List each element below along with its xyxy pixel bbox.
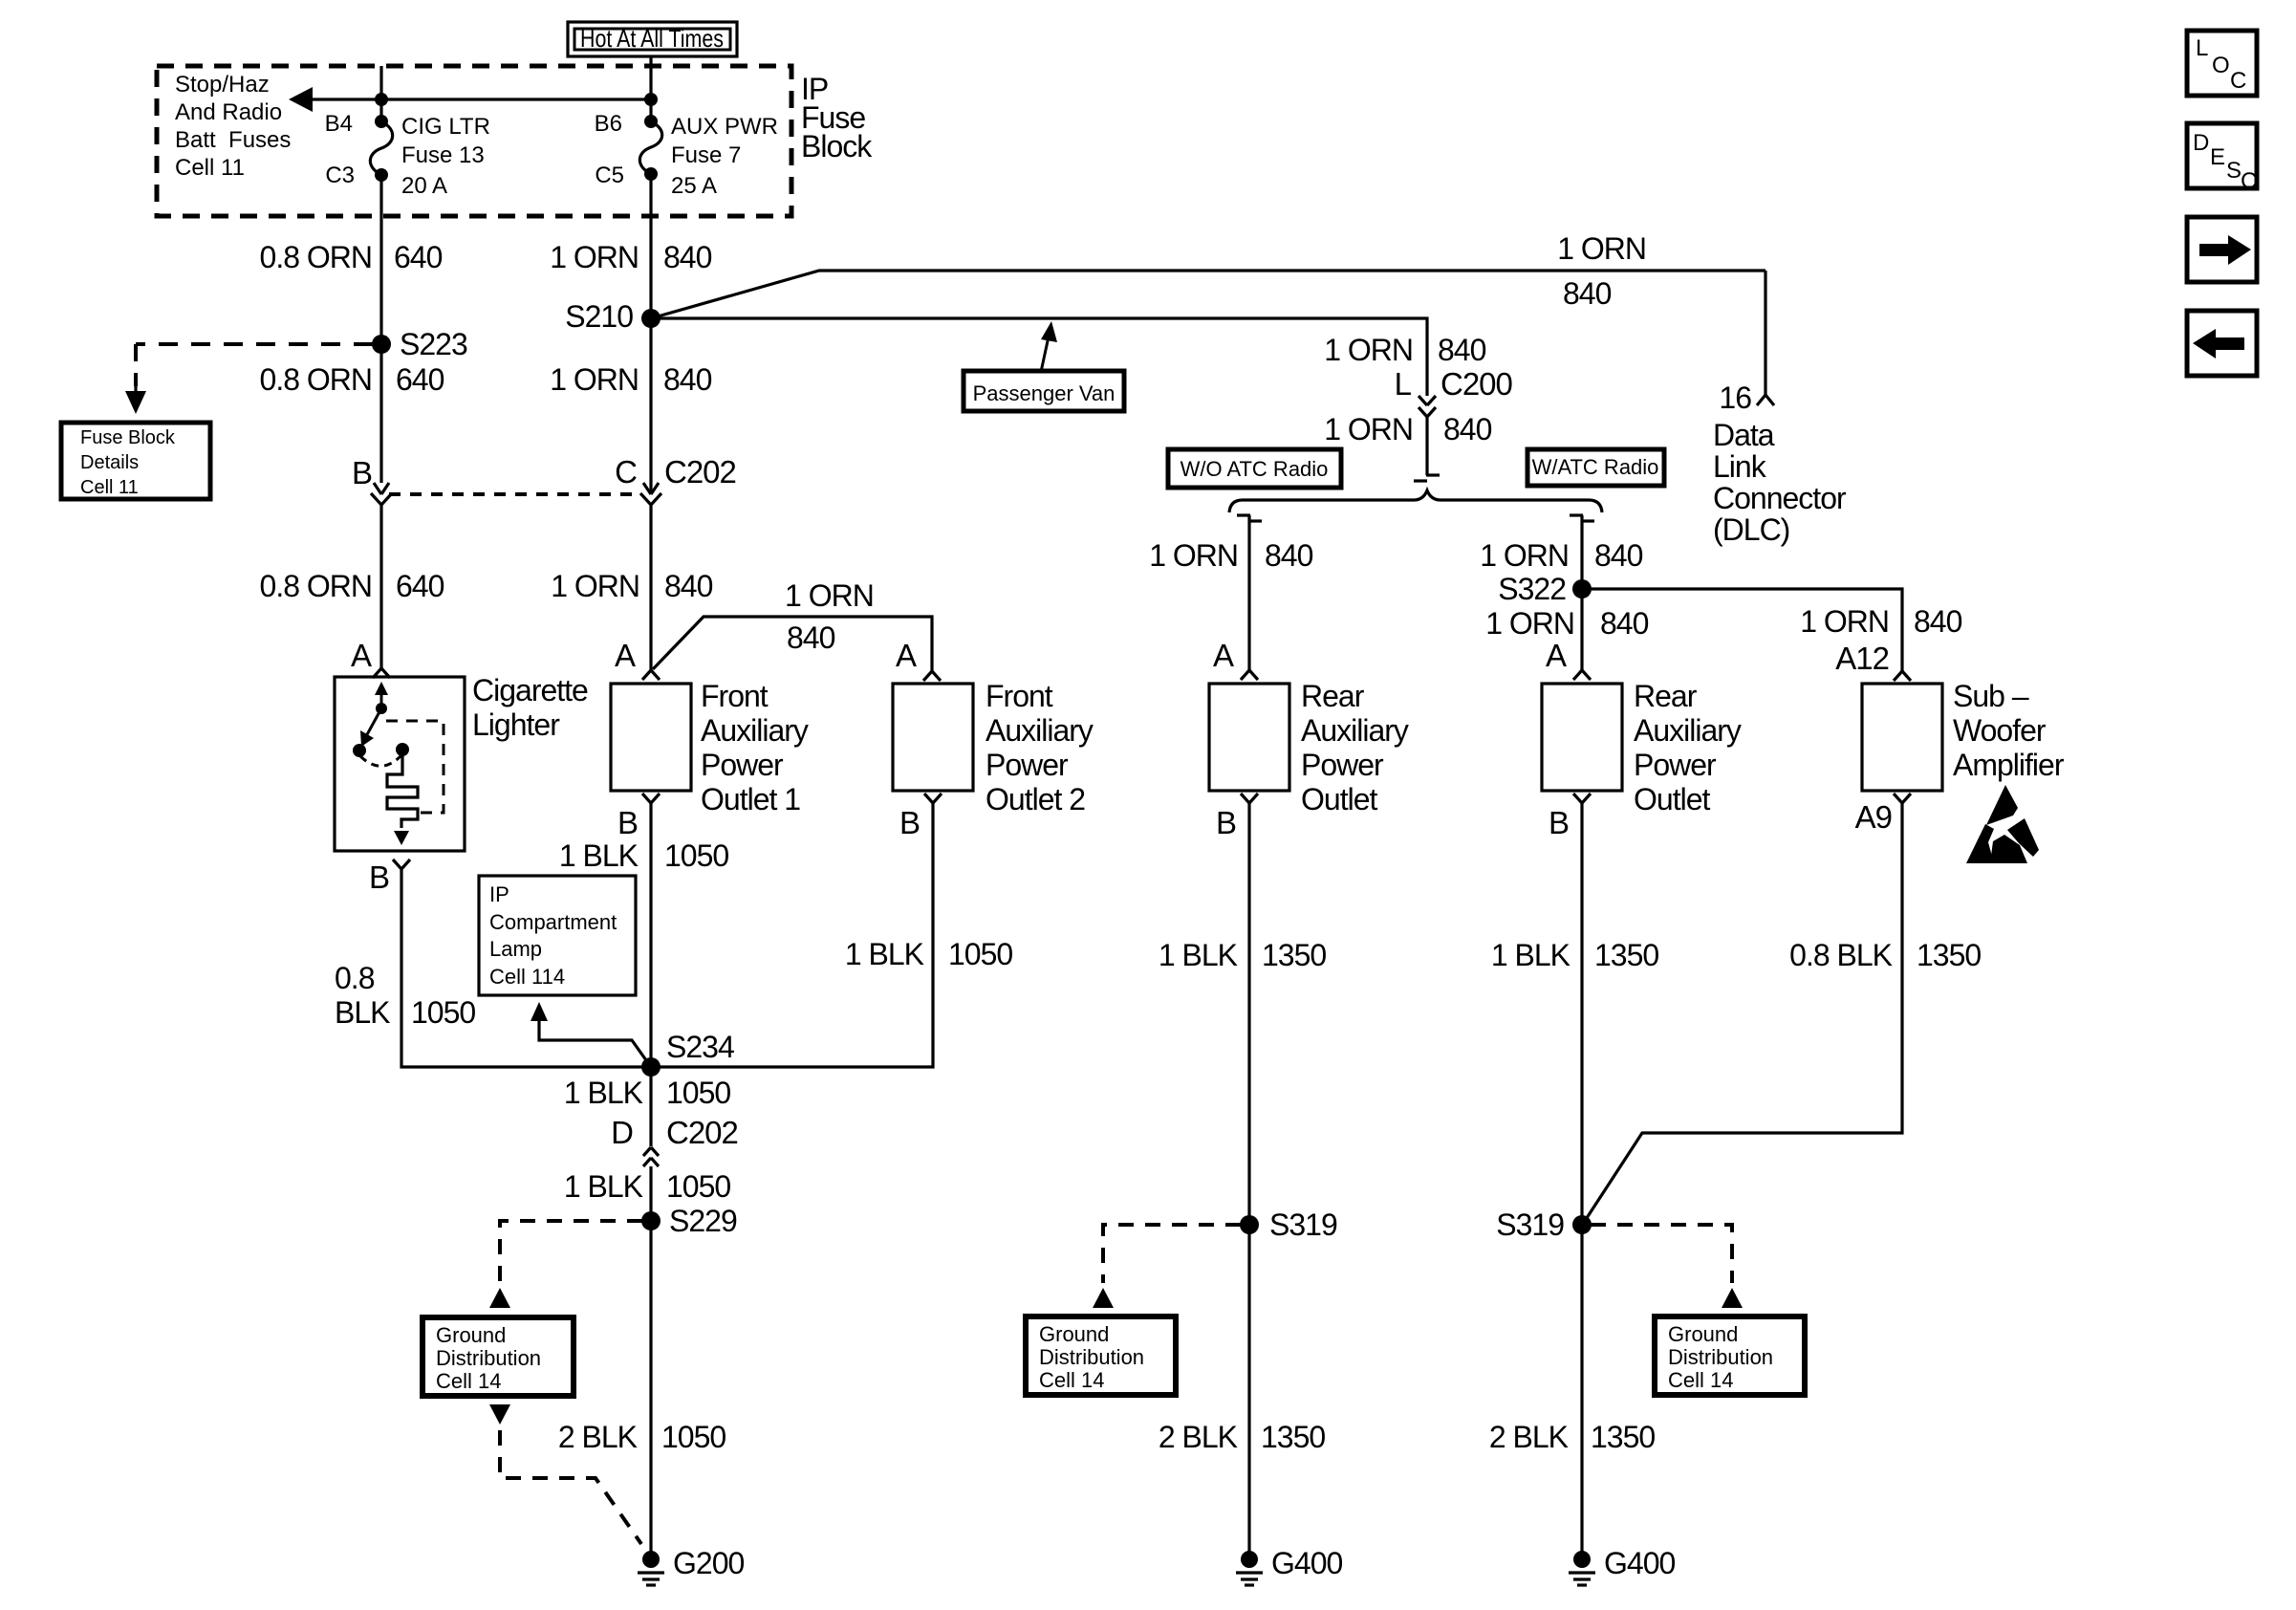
pin A9 of sub-woofer amplifier: [1855, 794, 1911, 835]
svg-text:2 BLK: 2 BLK: [558, 1420, 638, 1454]
svg-text:Front: Front: [986, 679, 1053, 713]
svg-text:B: B: [899, 805, 920, 840]
svg-text:840: 840: [1443, 412, 1492, 446]
label 0.8 ORN 640 (below S223): [260, 362, 444, 397]
svg-text:Fuse Block: Fuse Block: [80, 427, 176, 448]
cigarette lighter internals: dashed element outline: [386, 721, 444, 813]
svg-text:And Radio: And Radio: [175, 99, 282, 125]
svg-text:Cell 11: Cell 11: [80, 477, 139, 498]
wire: S210 run to C200: [651, 318, 1427, 396]
svg-text:1 ORN: 1 ORN: [1324, 333, 1413, 367]
legend box left-arrow: [2187, 311, 2257, 376]
wire: S322 branch to sub-woofer pin A12: [1582, 589, 1902, 671]
svg-text:L: L: [1395, 366, 1412, 402]
svg-text:S: S: [2226, 158, 2242, 184]
svg-text:840: 840: [787, 620, 835, 655]
svg-text:Data: Data: [1713, 418, 1775, 452]
wire: 0.8 BLK 1350 from A9 to S319 (right): [1585, 803, 1902, 1221]
svg-text:1350: 1350: [1591, 1420, 1655, 1454]
wire: 1 BLK 1350 rear outlet to G400 (left): [1247, 803, 1250, 1559]
cigarette lighter internals: dashed arc between contacts: [360, 755, 401, 766]
reference box: IP Compartment Lamp Cell 114: [479, 876, 636, 995]
wire: 1 BLK 1050 outlet 1 to S234: [649, 803, 652, 1146]
splice S210: [565, 299, 661, 334]
svg-text:W/O ATC Radio: W/O ATC Radio: [1180, 457, 1329, 481]
svg-text:A: A: [615, 638, 636, 673]
svg-text:S322: S322: [1498, 572, 1566, 606]
svg-text:Sub –: Sub –: [1953, 679, 2029, 713]
dashed reference from Ground Distribution box to G200 wire: [489, 1404, 641, 1544]
svg-text:1050: 1050: [411, 995, 475, 1030]
svg-text:O: O: [2212, 53, 2230, 78]
svg-text:840: 840: [1914, 604, 1962, 639]
svg-text:Auxiliary: Auxiliary: [701, 713, 809, 748]
svg-text:1 ORN: 1 ORN: [1480, 538, 1569, 573]
component box: Front Auxiliary Power Outlet 2: [893, 679, 1094, 816]
svg-text:Power: Power: [1634, 748, 1717, 782]
component box: Rear Auxiliary Power Outlet (W/ATC): [1542, 679, 1742, 816]
label 1 ORN 840 on branch: [785, 578, 874, 655]
legend box DESC: [2187, 123, 2257, 194]
svg-text:Cell 14: Cell 14: [1039, 1368, 1104, 1392]
hook terminal at C200 wire end: [1414, 475, 1440, 481]
svg-text:20 A: 20 A: [401, 173, 447, 199]
wire: S210 diagonal branch to upper ORN run: [651, 271, 1765, 318]
svg-text:Distribution: Distribution: [1039, 1345, 1144, 1369]
svg-text:Compartment: Compartment: [489, 910, 617, 934]
cigarette lighter internals: element contact dot: [396, 743, 409, 756]
label 1 ORN 840 below C200: [1324, 412, 1491, 446]
legend box right-arrow: [2187, 217, 2257, 282]
svg-text:A: A: [351, 638, 372, 673]
svg-text:Batt Fuses: Batt Fuses: [175, 127, 291, 153]
wire: right vertical from Hot box to fuse B6: [649, 56, 652, 121]
svg-text:E: E: [2210, 144, 2225, 170]
label 0.8 BLK 1350: [1789, 938, 1981, 972]
svg-text:Ground: Ground: [436, 1323, 506, 1347]
label 1 BLK 1050 above S229: [564, 1169, 731, 1204]
svg-text:Lamp: Lamp: [489, 937, 542, 961]
svg-text:C202: C202: [664, 454, 736, 490]
svg-text:Cigarette: Cigarette: [472, 673, 588, 707]
fuse AUX PWR Fuse 7 25 A: [595, 111, 778, 199]
label 1 BLK 1350 (left): [1159, 938, 1327, 972]
connector break D (C202): [611, 1115, 738, 1166]
component box: Rear Auxiliary Power Outlet (W/O ATC): [1209, 679, 1409, 816]
dashed reference from S319 right to Ground Distribution (right): [1591, 1225, 1743, 1308]
svg-text:A: A: [1546, 638, 1567, 673]
reference box: Ground Distribution Cell 14 (right): [1655, 1316, 1805, 1395]
node junction at left wire / arrow: [375, 93, 388, 106]
svg-text:C200: C200: [1440, 366, 1513, 402]
svg-text:Fuse 13: Fuse 13: [401, 142, 485, 168]
component box: Front Auxiliary Power Outlet 1: [611, 679, 809, 816]
label 1 ORN 840 above S322: [1480, 538, 1642, 573]
svg-text:1 ORN: 1 ORN: [550, 362, 639, 397]
arrow from S234 to IP Compartment Lamp box: [531, 1002, 651, 1067]
label: Data Link Connector (DLC): [1713, 418, 1847, 547]
harness split brace: [1229, 490, 1602, 512]
svg-text:G400: G400: [1604, 1546, 1675, 1580]
svg-text:Link: Link: [1713, 449, 1767, 484]
svg-text:840: 840: [1594, 538, 1643, 573]
ESD sensitivity symbol: [1966, 785, 2039, 863]
svg-text:840: 840: [1438, 333, 1486, 367]
svg-text:B: B: [352, 455, 372, 490]
svg-text:1050: 1050: [661, 1420, 726, 1454]
svg-text:1 BLK: 1 BLK: [1491, 938, 1570, 972]
svg-text:Outlet 1: Outlet 1: [701, 782, 800, 816]
label 1 ORN 840 on upper run: [1557, 231, 1646, 311]
connector break C (C202) on center wire: [615, 454, 736, 505]
hook terminal atop rear aux wire (W/ATC): [1570, 515, 1594, 521]
svg-text:D: D: [611, 1115, 633, 1150]
component box: Sub-Woofer Amplifier: [1862, 679, 2065, 791]
pin A of rear outlet (W/ATC): [1546, 638, 1591, 680]
label 1 ORN 840 (rear W/O ATC): [1149, 538, 1312, 573]
svg-text:S319: S319: [1269, 1207, 1337, 1242]
label 2 BLK 1350 (left): [1159, 1420, 1326, 1454]
svg-text:W/ATC Radio: W/ATC Radio: [1532, 455, 1659, 479]
pin A of cigarette lighter: [351, 638, 390, 678]
wire: 1 ORN 840 to rear outlet pin A (W/O ATC): [1247, 515, 1250, 671]
reference box: Fuse Block Details Cell 11: [61, 423, 210, 499]
wire: 1 BLK 1350 rear outlet (W/ATC) to G400 (right): [1580, 803, 1583, 1559]
wire: 1 ORN 840 from S210 to C break: [649, 318, 652, 494]
pin B of rear outlet (W/ATC): [1549, 794, 1591, 840]
svg-text:840: 840: [663, 362, 712, 397]
svg-text:1350: 1350: [1262, 938, 1326, 972]
svg-text:C: C: [2230, 68, 2246, 94]
svg-text:Details: Details: [80, 452, 139, 473]
label 1 ORN 840 (sub-woofer feed): [1800, 604, 1961, 639]
svg-text:Hot At All Times: Hot At All Times: [580, 24, 724, 53]
wire: branch from outlet1 pin A to outlet 2: [653, 617, 932, 671]
node junction at right wire / arrow: [644, 93, 658, 106]
svg-text:840: 840: [1563, 276, 1612, 311]
dashed connector line C202 between B and C: [389, 492, 639, 496]
svg-text:B: B: [1549, 805, 1569, 840]
pin A of outlet 1: [615, 638, 660, 680]
label 1 BLK 1050 below S234: [564, 1076, 731, 1110]
fuse CIG LTR Fuse 13 20 A: [325, 111, 490, 199]
pin A12 of sub-woofer amplifier: [1835, 641, 1911, 681]
svg-text:AUX PWR: AUX PWR: [671, 114, 778, 140]
svg-text:Amplifier: Amplifier: [1953, 748, 2065, 782]
svg-text:640: 640: [396, 569, 444, 603]
pin B of rear outlet (W/O ATC): [1216, 794, 1258, 840]
svg-text:1 BLK: 1 BLK: [559, 838, 639, 873]
svg-text:1 ORN: 1 ORN: [785, 578, 874, 613]
svg-text:25 A: 25 A: [671, 173, 717, 199]
svg-text:C: C: [615, 454, 637, 490]
dashed reference from S319 to Ground Distribution (middle): [1093, 1225, 1241, 1308]
dashed reference from S223 to Fuse Block Details: [125, 344, 373, 414]
cigarette lighter internals: heating element resistor: [387, 750, 418, 828]
svg-text:B: B: [369, 859, 389, 895]
wire below C200 to harness hook: [1425, 417, 1428, 475]
svg-text:CIG LTR: CIG LTR: [401, 114, 490, 140]
ground G400 (left): [1236, 1546, 1342, 1585]
svg-text:1 ORN: 1 ORN: [550, 240, 639, 274]
svg-text:Distribution: Distribution: [1668, 1345, 1773, 1369]
svg-text:1350: 1350: [1261, 1420, 1325, 1454]
svg-text:S319: S319: [1496, 1207, 1564, 1242]
svg-text:Auxiliary: Auxiliary: [1301, 713, 1409, 748]
svg-text:1 ORN: 1 ORN: [1324, 412, 1413, 446]
svg-text:1350: 1350: [1594, 938, 1658, 972]
svg-text:Woofer: Woofer: [1953, 713, 2047, 748]
svg-text:C202: C202: [666, 1115, 738, 1150]
svg-text:1 BLK: 1 BLK: [564, 1169, 643, 1204]
svg-text:BLK: BLK: [335, 995, 390, 1030]
dashed reference from S229 to Ground Distribution: [489, 1221, 642, 1308]
cigarette lighter internals: switch contact arrow up: [375, 682, 388, 714]
ground G200: [638, 1546, 744, 1585]
svg-text:640: 640: [396, 362, 444, 397]
svg-text:Connector: Connector: [1713, 481, 1847, 515]
svg-text:Lighter: Lighter: [472, 707, 560, 742]
svg-text:1050: 1050: [948, 937, 1012, 971]
pin A of rear outlet (W/O ATC): [1213, 638, 1258, 680]
svg-text:1 ORN: 1 ORN: [1800, 604, 1889, 639]
svg-text:Cell 114: Cell 114: [489, 965, 565, 989]
svg-text:Rear: Rear: [1634, 679, 1698, 713]
label 1 ORN 840 (center lower): [551, 569, 712, 603]
svg-text:L: L: [2196, 35, 2208, 61]
svg-text:840: 840: [664, 569, 713, 603]
svg-text:A: A: [1213, 638, 1234, 673]
svg-text:C3: C3: [325, 163, 355, 188]
cigarette lighter: [335, 673, 588, 851]
pin 16 of DLC: [1719, 381, 1774, 415]
svg-text:S210: S210: [565, 299, 633, 334]
connector C200 pin L: [1395, 366, 1513, 417]
svg-text:0.8 ORN: 0.8 ORN: [260, 362, 372, 397]
svg-text:840: 840: [1600, 606, 1649, 641]
wire: 1 ORN 840 from S322 to rear outlet pin A (W/ATC): [1580, 589, 1583, 671]
svg-text:Power: Power: [1301, 748, 1384, 782]
svg-text:Ground: Ground: [1039, 1322, 1109, 1346]
svg-text:1350: 1350: [1917, 938, 1981, 972]
wire: 0.8 ORN 640 from B break to cigarette lighter pin A: [379, 505, 382, 669]
svg-text:Power: Power: [701, 748, 784, 782]
option box: W/O ATC Radio: [1168, 449, 1341, 488]
svg-text:C: C: [2241, 168, 2257, 194]
splice S234: [641, 1030, 734, 1077]
wire: feed to Stop/Haz fuses with left arrow: [289, 87, 651, 112]
svg-text:Auxiliary: Auxiliary: [986, 713, 1094, 748]
svg-text:Block: Block: [801, 129, 873, 163]
svg-text:Rear: Rear: [1301, 679, 1365, 713]
wire: 0.8 BLK 1050 from cigarette lighter to S234 run: [401, 869, 642, 1067]
svg-text:G200: G200: [673, 1546, 744, 1580]
svg-text:0.8 ORN: 0.8 ORN: [260, 240, 372, 274]
svg-text:1 ORN: 1 ORN: [551, 569, 639, 603]
svg-text:1 BLK: 1 BLK: [845, 937, 924, 971]
legend box LOC: [2187, 31, 2257, 96]
label 1 BLK 1350 (right): [1491, 938, 1659, 972]
svg-text:16: 16: [1719, 381, 1751, 415]
splice S319 (right): [1496, 1207, 1592, 1242]
svg-text:Power: Power: [986, 748, 1069, 782]
wire: 0.8 ORN 640 from C3 to S223: [379, 175, 382, 483]
IP Fuse Block dashed boundary: [157, 66, 791, 216]
wire: upper run drop to DLC pin 16: [1764, 271, 1766, 395]
label 2 BLK 1350 (right): [1489, 1420, 1656, 1454]
wire: 1 BLK 1050 from D break to S229: [649, 1166, 652, 1559]
wire: 1 ORN 840 to S322: [1580, 515, 1583, 589]
svg-text:A9: A9: [1855, 799, 1892, 835]
label 1 BLK 1050 (outlet 2): [845, 937, 1013, 971]
svg-text:1050: 1050: [664, 838, 728, 873]
svg-text:S223: S223: [400, 327, 467, 361]
svg-text:2 BLK: 2 BLK: [1489, 1420, 1569, 1454]
wire: 1 BLK 1050 outlet 2 down to S234 run: [651, 803, 933, 1067]
label box: Hot At All Times: [568, 22, 737, 56]
option box: W/ATC Radio: [1527, 449, 1664, 486]
svg-text:Stop/Haz: Stop/Haz: [175, 72, 270, 98]
label 0.8 ORN 640 (lower): [260, 569, 444, 603]
splice S322: [1498, 572, 1592, 606]
svg-text:0.8: 0.8: [335, 961, 375, 995]
callout: Passenger Van: [964, 321, 1124, 411]
svg-text:C5: C5: [595, 163, 624, 188]
reference box: Ground Distribution Cell 14 (left): [422, 1317, 574, 1396]
svg-text:Cell 14: Cell 14: [1668, 1368, 1733, 1392]
svg-text:G400: G400: [1271, 1546, 1342, 1580]
svg-text:B: B: [617, 805, 638, 840]
label 1 ORN 840 (below S210): [550, 362, 711, 397]
svg-text:Ground: Ground: [1668, 1322, 1738, 1346]
svg-text:840: 840: [1265, 538, 1313, 573]
hook terminal atop rear aux wire (W/O ATC): [1237, 515, 1262, 521]
label 1 ORN 840 below S322: [1485, 606, 1648, 641]
svg-text:Outlet 2: Outlet 2: [986, 782, 1085, 816]
svg-text:Outlet: Outlet: [1634, 782, 1710, 816]
svg-text:A: A: [896, 638, 917, 673]
splice S319 (left): [1240, 1207, 1337, 1242]
svg-text:1 BLK: 1 BLK: [564, 1076, 643, 1110]
svg-text:840: 840: [663, 240, 712, 274]
svg-text:1050: 1050: [666, 1169, 730, 1204]
wire label 1 ORN 840 above C200: [1324, 333, 1485, 367]
ground G400 (right): [1569, 1546, 1675, 1585]
cigarette lighter internals: arrow down to pin B: [394, 831, 409, 845]
reference box: Ground Distribution Cell 14 (middle): [1026, 1316, 1176, 1395]
svg-text:D: D: [2193, 130, 2209, 156]
connector break B (C202) on left wire: [352, 455, 392, 505]
wire: left vertical from box top to fuse B4: [379, 66, 382, 121]
svg-text:Auxiliary: Auxiliary: [1634, 713, 1742, 748]
svg-text:Cell 14: Cell 14: [436, 1369, 501, 1393]
svg-text:S229: S229: [669, 1204, 737, 1238]
label 1 ORN 840 (upper center): [550, 240, 711, 274]
wire: 1 ORN 840 from C5 down to S210: [649, 174, 652, 318]
svg-text:0.8 BLK: 0.8 BLK: [1789, 938, 1893, 972]
splice S223: [372, 327, 467, 361]
pin B of outlet 1: [617, 794, 660, 840]
svg-text:Outlet: Outlet: [1301, 782, 1377, 816]
pin A of outlet 2: [896, 638, 941, 681]
pin B of outlet 2: [899, 794, 942, 840]
label: IP Fuse Block: [801, 72, 873, 163]
svg-text:A12: A12: [1835, 641, 1889, 676]
svg-text:0.8 ORN: 0.8 ORN: [260, 569, 372, 603]
svg-text:640: 640: [394, 240, 443, 274]
note: Stop/Haz And Radio Batt Fuses Cell 11: [175, 72, 291, 181]
label 1 BLK 1050: [559, 838, 729, 873]
cigarette lighter internals: movable contact arm: [353, 708, 381, 757]
svg-text:B6: B6: [595, 111, 622, 137]
svg-text:1 ORN: 1 ORN: [1485, 606, 1574, 641]
svg-text:Passenger Van: Passenger Van: [973, 381, 1116, 405]
svg-text:1050: 1050: [666, 1076, 730, 1110]
svg-text:Front: Front: [701, 679, 769, 713]
svg-text:B4: B4: [325, 111, 353, 137]
svg-text:2 BLK: 2 BLK: [1159, 1420, 1238, 1454]
svg-text:IP: IP: [489, 882, 509, 906]
pin B of cigarette lighter: [369, 859, 410, 895]
svg-text:Distribution: Distribution: [436, 1346, 541, 1370]
wire: 1 ORN 840 from C break to outlet 1 pin A: [649, 505, 652, 671]
splice S229: [641, 1204, 737, 1238]
svg-text:1 ORN: 1 ORN: [1557, 231, 1646, 266]
svg-text:S234: S234: [666, 1030, 734, 1064]
svg-text:Cell 11: Cell 11: [175, 155, 245, 181]
svg-text:(DLC): (DLC): [1713, 512, 1789, 547]
label 0.8 BLK 1050: [335, 961, 475, 1030]
svg-text:Fuse 7: Fuse 7: [671, 142, 741, 168]
label 2 BLK 1050: [558, 1420, 726, 1454]
svg-text:B: B: [1216, 805, 1236, 840]
label 0.8 ORN 640 (upper): [260, 240, 443, 274]
svg-text:1 BLK: 1 BLK: [1159, 938, 1238, 972]
svg-text:1 ORN: 1 ORN: [1149, 538, 1238, 573]
